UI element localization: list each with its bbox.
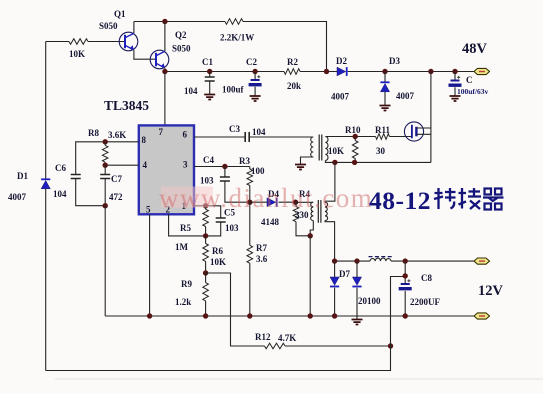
node C8 top rail junction — [403, 258, 408, 263]
wire D7 left leads — [334, 261, 336, 316]
svg-text:4.7K: 4.7K — [278, 333, 296, 343]
svg-text:5: 5 — [146, 205, 151, 215]
svg-text:472: 472 — [109, 192, 123, 202]
svg-text:C8: C8 — [421, 273, 432, 283]
ground under D3 — [380, 106, 391, 111]
wire R12 right lead — [285, 345, 391, 347]
wire T1 left winding bottom to ground — [301, 157, 314, 164]
node T1 bottom left junction — [332, 160, 337, 165]
node rail/top-rail junction — [324, 69, 329, 74]
svg-text:Q2: Q2 — [175, 30, 187, 40]
node R12 right junction — [388, 343, 393, 348]
svg-text:R9: R9 — [181, 279, 192, 289]
svg-text:D2: D2 — [336, 56, 347, 66]
wire R7 upper lead — [249, 202, 251, 245]
node C4 junction — [222, 164, 227, 169]
wire feedback R6 junction to R12 — [206, 273, 265, 346]
ground under T1 — [295, 165, 306, 170]
node D4/R4 junction — [293, 200, 298, 205]
wire ground stub on rail — [356, 316, 358, 319]
resistor 2.2K/1W — [225, 19, 243, 25]
wire R6 leads — [205, 236, 207, 273]
terminal 12V negative — [474, 313, 490, 319]
terminal 12V positive — [474, 258, 490, 264]
scan artifact line — [55, 378, 543, 380]
svg-text:C3: C3 — [229, 124, 240, 134]
transformer T1 primary winding — [311, 137, 314, 157]
wire pin7 riser — [164, 72, 166, 126]
svg-text:3: 3 — [183, 160, 188, 170]
resistor R7 — [247, 245, 253, 263]
svg-text:12V: 12V — [478, 283, 504, 299]
wire top rail left segment — [134, 21, 225, 23]
wire left vertical upper — [45, 42, 47, 180]
wire Q2 emitter to rail — [164, 68, 166, 71]
wire main rail (48V bus) — [165, 71, 474, 73]
terminal 48V output — [474, 68, 490, 74]
wire pin3 net — [194, 166, 250, 168]
wire T1 right top to gate line — [325, 136, 411, 138]
transformer T1 core — [319, 135, 322, 161]
title glyph huan — [459, 188, 482, 209]
wire pin5 to bottom rail — [149, 214, 151, 316]
wire R8 leads — [104, 142, 106, 165]
ground on bottom rail — [352, 320, 363, 325]
diode D3 — [380, 82, 389, 92]
node C8 plus junction — [403, 273, 408, 278]
wire C8 leads — [404, 261, 406, 316]
node C1 junction — [207, 69, 212, 74]
svg-text:4007: 4007 — [331, 92, 350, 102]
svg-text:S050: S050 — [172, 44, 191, 54]
svg-text:2.2K/1W: 2.2K/1W — [220, 33, 254, 43]
title glyph qi — [483, 189, 504, 210]
watermark band — [161, 187, 213, 208]
svg-text:C7: C7 — [111, 174, 122, 184]
transistor Q2 — [150, 50, 169, 69]
svg-text:R7: R7 — [256, 243, 267, 253]
svg-text:7: 7 — [159, 127, 164, 137]
svg-text:103: 103 — [225, 223, 239, 233]
diode D4 — [267, 198, 277, 207]
wire R4 junction to bottom rail — [309, 236, 311, 316]
svg-text:100: 100 — [251, 166, 265, 176]
wire pin8 net — [76, 142, 139, 175]
wire R5 leads — [205, 206, 207, 236]
resistor R12 — [265, 343, 286, 349]
svg-text:30: 30 — [376, 146, 386, 156]
svg-text:TL3845: TL3845 — [104, 98, 149, 113]
svg-text:C6: C6 — [55, 163, 66, 173]
node Q2 collector junction — [162, 19, 167, 24]
resistor R10 — [352, 141, 358, 159]
transformer T2 left winding — [311, 202, 314, 220]
svg-text:S050: S050 — [99, 21, 118, 31]
wire cap C leads — [454, 72, 456, 96]
wire 10K to Q1 base — [88, 41, 124, 43]
wire Q1 emitter to Q2 base — [134, 50, 155, 59]
svg-text:10K: 10K — [328, 146, 344, 156]
svg-text:D3: D3 — [389, 56, 400, 66]
svg-text:3.6: 3.6 — [256, 254, 268, 264]
svg-text:48V: 48V — [462, 41, 488, 57]
svg-text:104: 104 — [252, 127, 266, 137]
ground under C2 — [250, 96, 261, 101]
transformer T1 secondary winding — [325, 137, 328, 161]
wire C2 leads — [254, 72, 256, 96]
svg-text:C4: C4 — [203, 155, 214, 165]
inductor L1 — [370, 258, 391, 261]
capacitor C1 — [205, 77, 215, 81]
node R9 bottom on rail — [203, 313, 208, 318]
wire D3 leads — [384, 72, 386, 106]
capacitor C8 electrolytic — [399, 279, 412, 290]
svg-text:2200UF: 2200UF — [410, 297, 440, 307]
node R3 bottom junction — [247, 200, 252, 205]
svg-text:104: 104 — [184, 86, 198, 96]
transformer T2 right winding — [325, 202, 328, 220]
svg-text:R6: R6 — [212, 246, 223, 256]
wire lower T right top stub — [324, 201, 326, 202]
node D7 left bottom on rail — [332, 313, 337, 318]
svg-text:R10: R10 — [345, 125, 361, 135]
svg-text:R8: R8 — [88, 128, 99, 138]
wire MOSFET drain vertical — [430, 72, 432, 163]
svg-text:R12: R12 — [255, 332, 271, 342]
capacitor C3 — [245, 132, 249, 142]
node C8 bottom on rail — [403, 313, 408, 318]
svg-text:10K: 10K — [210, 257, 226, 267]
svg-text:20100: 20100 — [358, 296, 381, 306]
node Q2 emitter on rail — [162, 69, 167, 74]
capacitor C7 — [100, 175, 110, 179]
wire R10 leads — [354, 137, 356, 163]
svg-text:100uf: 100uf — [222, 85, 245, 95]
wire ground drop to bottom rail — [104, 206, 106, 316]
svg-text:8: 8 — [142, 135, 147, 145]
node R10 bottom — [352, 160, 357, 165]
capacitor C electrolytic 100uf/63v — [449, 76, 462, 87]
svg-text:4: 4 — [143, 160, 148, 170]
svg-text:104: 104 — [53, 189, 67, 199]
svg-text:3.6K: 3.6K — [108, 130, 126, 140]
resistor R9 — [203, 283, 209, 301]
svg-text:48-12: 48-12 — [369, 186, 431, 215]
wire T2 left winding bottom — [310, 221, 313, 236]
resistor R5 — [203, 209, 209, 226]
diode D1 — [41, 179, 50, 189]
node R6/R9 junction — [203, 270, 208, 275]
svg-text:R5: R5 — [180, 223, 191, 233]
svg-text:100uf/63v: 100uf/63v — [457, 87, 489, 96]
node R4 line on rail — [308, 313, 313, 318]
wire pin2 to node B — [169, 214, 206, 236]
node D3 junction — [382, 69, 387, 74]
resistor R8 — [102, 145, 108, 162]
resistor 10K (Q1 base) — [69, 39, 88, 45]
svg-text:R2: R2 — [287, 57, 298, 67]
svg-text:www.dianlut.com: www.dianlut.com — [159, 183, 373, 213]
wire C7 leads — [104, 165, 106, 206]
wire bottom rail (12V return) — [105, 315, 474, 317]
diode D7 left half — [330, 277, 339, 287]
svg-text:C: C — [466, 75, 473, 85]
svg-text:D7: D7 — [339, 269, 350, 279]
node R10 top — [353, 134, 358, 139]
node R8 top junction — [103, 139, 108, 144]
node D7 left top — [332, 258, 337, 263]
wire 12V positive rail — [335, 260, 474, 262]
wire feedback riser to C8 node — [391, 277, 406, 347]
inductor L1 core dashes — [369, 256, 393, 258]
transistor Q1 — [119, 32, 138, 51]
wire link upper to lower transformer — [325, 162, 335, 201]
wire T2 right winding bottom to 12V rail — [325, 221, 335, 262]
svg-text:R11: R11 — [375, 125, 391, 135]
wire C6 bottom — [76, 179, 106, 206]
node D7 right top — [354, 258, 359, 263]
resistor R2 — [284, 69, 300, 75]
capacitor C4 — [220, 177, 230, 181]
node B (pin2/R5/R6) — [203, 233, 208, 238]
node R4 bottom junction — [308, 233, 313, 238]
node pin5 on bottom rail — [147, 313, 152, 318]
svg-text:6: 6 — [183, 130, 188, 140]
wire pin6 to C3 — [194, 136, 245, 138]
capacitor C6 — [71, 175, 81, 179]
resistor R11 — [376, 134, 390, 140]
ground under C — [450, 96, 461, 101]
wire pin1 to node A — [194, 205, 206, 207]
wire top rail right segment — [243, 22, 327, 72]
wire T1 bottom net — [325, 161, 431, 163]
svg-text:1.2k: 1.2k — [175, 297, 191, 307]
node C2 junction — [252, 69, 257, 74]
svg-text:1M: 1M — [175, 242, 189, 252]
svg-text:4148: 4148 — [261, 217, 280, 227]
node MOSFET drain junction — [428, 69, 433, 74]
wire Q1 collector riser — [133, 22, 135, 34]
title glyph zhuan — [434, 188, 456, 209]
wire C4 leads — [225, 167, 250, 203]
svg-text:Q1: Q1 — [114, 9, 126, 19]
capacitor C5 — [216, 218, 226, 222]
svg-text:20k: 20k — [287, 81, 301, 91]
transformer T2 core — [318, 200, 321, 223]
wire pin4 wire — [105, 164, 139, 166]
op-amp U1 TL3845 body — [139, 125, 194, 214]
wire bottom return line — [46, 346, 391, 371]
wire R4 leads — [296, 202, 310, 236]
diode D2 — [337, 67, 347, 76]
wire D4 junction to lower transformer — [296, 201, 314, 203]
svg-text:C2: C2 — [246, 57, 257, 67]
svg-text:D1: D1 — [17, 171, 28, 181]
wire D7 right leads — [356, 261, 358, 316]
node R8 bottom junction — [103, 163, 108, 168]
capacitor C2 electrolytic — [249, 75, 262, 86]
wire Q2 collector riser — [164, 22, 166, 52]
node R7 bottom on rail — [247, 313, 252, 318]
svg-text:4007: 4007 — [396, 91, 415, 101]
wire left vertical lower — [45, 189, 47, 371]
resistor R3 — [247, 169, 253, 186]
wire C3 to transformer — [249, 136, 313, 138]
wire D4 right lead — [279, 201, 296, 203]
node output cap C junction — [452, 69, 457, 74]
svg-text:10K: 10K — [69, 49, 85, 59]
transistor Q3 MOSFET — [404, 122, 431, 141]
wire C1 leads — [209, 72, 211, 95]
diode D7 right half — [352, 277, 361, 287]
ground under C1 — [204, 95, 215, 100]
svg-text:C1: C1 — [202, 57, 213, 67]
wire R9 leads — [205, 273, 207, 316]
wire R3 leads — [249, 167, 251, 203]
svg-text:4007: 4007 — [8, 192, 27, 202]
wire R7 lower lead — [249, 263, 251, 316]
wire C5 branch — [206, 206, 221, 236]
resistor R4 — [293, 207, 299, 222]
node A (pin1/R5/C5) — [203, 203, 208, 208]
wire left vertical top to 10K — [46, 41, 69, 43]
svg-text:R3: R3 — [239, 156, 250, 166]
node C6/C7 junction — [103, 203, 108, 208]
wire D4 left lead — [250, 201, 267, 203]
resistor R6 — [203, 244, 209, 262]
